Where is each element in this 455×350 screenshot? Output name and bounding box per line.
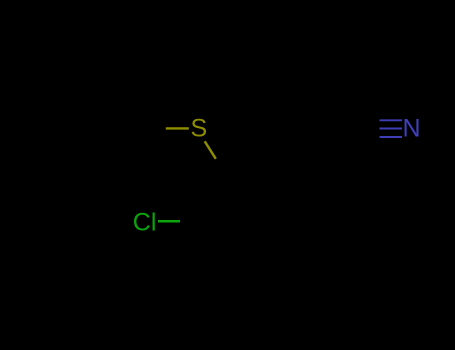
triple bond C#N line 2 <box>380 128 403 130</box>
bond Cl-ring <box>158 220 180 223</box>
triple bond C#N line 3 <box>380 136 403 138</box>
svg-text:N: N <box>403 115 421 143</box>
triple bond C#N line 1 <box>380 119 403 121</box>
svg-text:S: S <box>191 115 208 143</box>
bond S-ring <box>205 141 216 159</box>
bond S-CH3 <box>166 127 189 129</box>
svg-text:Cl: Cl <box>133 208 157 236</box>
